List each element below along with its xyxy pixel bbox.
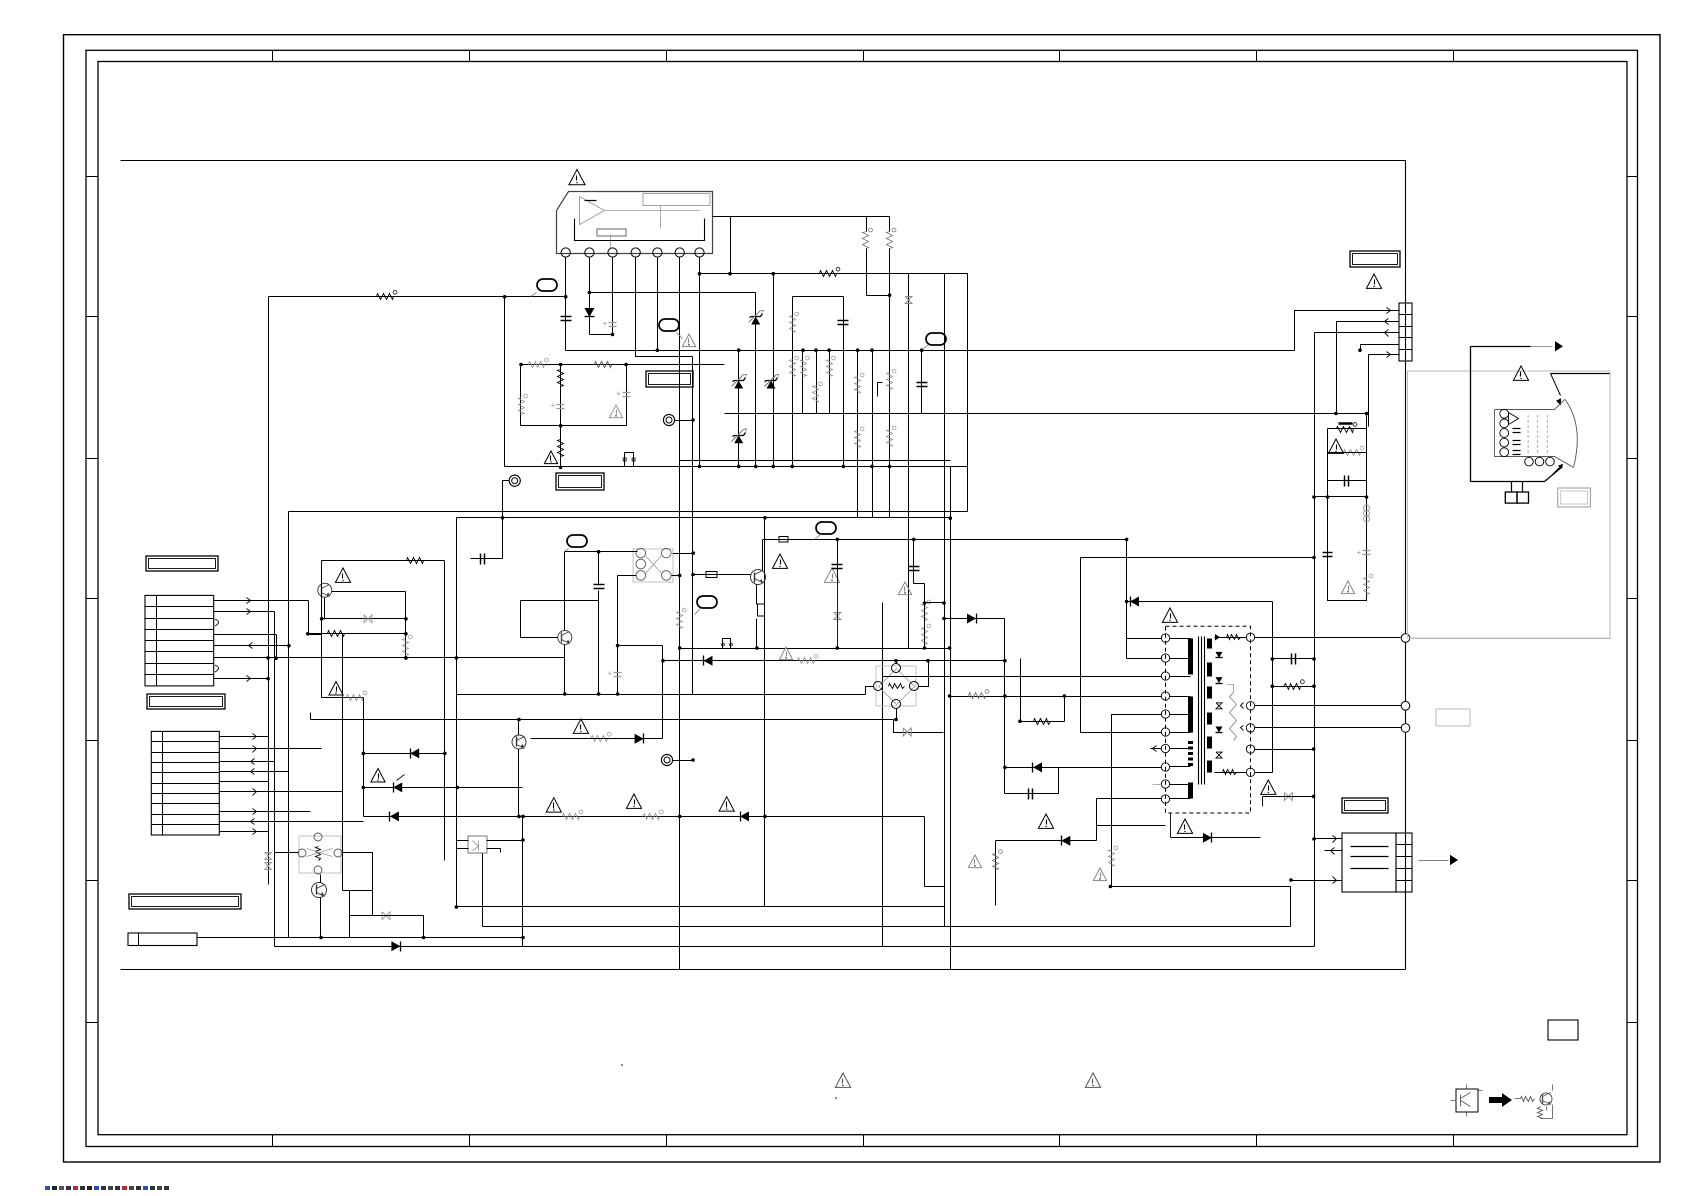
resistor R10 grey xyxy=(855,427,864,447)
connector CN1 xyxy=(145,595,214,686)
capacitor C16 grey xyxy=(608,669,622,678)
wire RC mid xyxy=(1326,495,1369,499)
resistor R6 grey xyxy=(801,356,810,376)
capacitor C7 xyxy=(917,383,928,387)
wire bus G y=539.4 xyxy=(763,539,1127,541)
warning tri R35 xyxy=(1093,868,1106,881)
wire Q3 base xyxy=(691,573,750,577)
capacitor C14 xyxy=(1029,789,1033,800)
wire trunk x=1291 xyxy=(1290,887,1292,927)
wire x=425 xyxy=(423,916,425,938)
wire trunk x=288 xyxy=(287,512,291,938)
wire bus H y=557.5 xyxy=(1081,556,1316,560)
wire U1 pin6 xyxy=(679,258,681,970)
wire K1 right xyxy=(672,574,682,578)
svg-text:+: + xyxy=(603,319,608,328)
svg-text:+: + xyxy=(1357,548,1362,557)
resistor R18 grey xyxy=(677,608,687,628)
open node N2 xyxy=(1401,702,1410,711)
label box LB8 xyxy=(1342,798,1388,813)
wire K2 left xyxy=(275,852,299,854)
wire Q1 emitter xyxy=(324,598,326,620)
warning grey P2 xyxy=(682,334,695,347)
zener Z1 xyxy=(749,311,764,325)
wire trunk x=444 xyxy=(444,561,446,861)
wire T1 xyxy=(503,481,510,559)
wire x=560 col xyxy=(560,365,562,468)
wire x=343 col xyxy=(342,634,344,891)
resistor R26 xyxy=(1273,680,1316,690)
resistor R2 grey xyxy=(863,228,873,248)
x-diode XD3 grey xyxy=(350,912,424,920)
wires CN2 fanout xyxy=(220,734,364,835)
resistor R33 grey xyxy=(969,690,989,699)
wire TR1 pin5 right xyxy=(1255,772,1273,774)
capacitor C10 xyxy=(909,538,920,584)
wire y=787.4 xyxy=(362,786,523,790)
resistor R25 grey xyxy=(1364,574,1373,594)
label box LB3 xyxy=(146,556,218,571)
diode D6 y=946 xyxy=(391,941,400,951)
wire col x=792 xyxy=(790,297,794,469)
wire U1 pin7 xyxy=(698,258,702,469)
warning tri bottom1 xyxy=(835,1073,850,1087)
capacitor C13 grey xyxy=(1357,548,1371,557)
warning tri grey a xyxy=(824,568,839,582)
resistor R4 on bus xyxy=(820,267,840,276)
wire TR1 pin3 right xyxy=(1255,727,1402,729)
wire RC left link xyxy=(1312,495,1327,499)
wire y=753.4 xyxy=(362,752,447,756)
wire bus F y=517.8 xyxy=(457,516,953,520)
wire y=618 diode xyxy=(942,617,1004,621)
wire x=663 link xyxy=(661,646,665,739)
wire TR1 pin5 left xyxy=(1112,715,1162,887)
wire R2 col xyxy=(866,217,868,296)
wire x=521 col xyxy=(520,365,522,426)
wire x=504 col xyxy=(504,297,506,467)
junction pin1 busA xyxy=(564,295,568,299)
wire x=1064 jog xyxy=(1064,697,1066,722)
resistor R28 xyxy=(595,362,612,368)
wire TR1 pin6 left xyxy=(1081,732,1162,734)
wire trunk x=693 xyxy=(692,357,694,695)
capacitor C5 grey xyxy=(616,389,630,398)
wire col x=829 xyxy=(827,348,831,413)
pulse symbol PS2 xyxy=(623,453,635,467)
wire x=311 stub xyxy=(310,713,312,720)
svg-text:+: + xyxy=(608,669,613,678)
wire R11 bracket xyxy=(878,383,883,397)
wire bus K y=694 xyxy=(457,694,866,696)
wire pin2 elbow xyxy=(590,333,615,337)
diode D3 xyxy=(704,656,713,666)
wire col x=888 lower xyxy=(888,296,892,518)
resistor R32 grey xyxy=(1328,446,1367,455)
capacitor C15 xyxy=(1273,654,1316,665)
resistor R7 grey xyxy=(813,382,823,402)
icon transistor circuit xyxy=(1515,1085,1553,1119)
wire x=995 xyxy=(995,841,997,906)
box BR corner xyxy=(1548,1020,1578,1040)
resistor R21 grey xyxy=(798,654,818,663)
wire opto right xyxy=(487,838,525,852)
wire col x=908 xyxy=(908,274,910,649)
warning tri TRb xyxy=(1177,819,1192,833)
resistor R29 grey xyxy=(519,394,528,414)
diode D9 xyxy=(410,748,419,758)
wire BR1 top xyxy=(894,659,898,664)
warning tri CN3 xyxy=(1366,274,1381,288)
wire TR1 pin9 stub xyxy=(1153,784,1162,786)
wire y=583.5 xyxy=(914,583,925,585)
wire y=825 xyxy=(1097,825,1166,827)
wire bus B y=350.2 xyxy=(566,350,1295,352)
warning tri M1 xyxy=(546,798,561,812)
capacitor C6 xyxy=(838,321,849,325)
diode D11 xyxy=(1033,762,1043,772)
warning tri M2 xyxy=(626,794,641,808)
resistor R38 grey xyxy=(403,635,413,655)
wire col x=739 xyxy=(737,348,741,468)
wire x=321 col xyxy=(320,561,324,698)
wire bus N y=886.5 xyxy=(1109,885,1291,889)
pill label P4 xyxy=(815,522,837,540)
CRT assembly xyxy=(1471,1,1685,504)
wire U1 pin4 xyxy=(636,258,693,357)
wire trunk x=268 xyxy=(268,297,270,885)
resistor R35 grey xyxy=(1109,846,1118,866)
terminal T1 xyxy=(509,475,520,486)
wire pin5 path xyxy=(1369,355,1399,427)
wire col x=843 xyxy=(842,297,846,469)
warning tri D12 xyxy=(1038,814,1053,828)
resistor R24 grey xyxy=(643,810,664,820)
capacitor C2 grey on pin3 xyxy=(603,319,617,328)
transistor Q2 xyxy=(558,631,572,645)
inductor L1 grey xyxy=(1364,505,1370,522)
wire U1 pin3 xyxy=(612,258,614,335)
wire x=363 col xyxy=(363,698,365,817)
wire x=1020 xyxy=(1020,659,1022,722)
pill label P1 xyxy=(531,279,558,297)
wire TR1 pin4 left xyxy=(948,694,1162,698)
wire col x=872 xyxy=(870,348,874,517)
wire pin1 path xyxy=(1295,311,1399,351)
warning tri RC2 xyxy=(1341,581,1354,594)
wire cap loop xyxy=(1005,768,1059,794)
warning tri R36 xyxy=(968,855,981,868)
pill label P3 xyxy=(923,333,947,350)
wire trunk x=617 xyxy=(616,576,620,696)
resistor R9 grey xyxy=(855,373,864,393)
wire bus E y=511.3 xyxy=(289,511,968,513)
x-diode XD4 grey xyxy=(364,615,372,623)
wire col x=773 xyxy=(772,274,776,469)
CRT grey frame xyxy=(1408,371,1611,638)
open node N3 xyxy=(1401,724,1410,733)
junction busD left xyxy=(559,466,563,470)
small box F1 xyxy=(779,537,788,543)
label box LB1 xyxy=(556,473,604,490)
wire TR1 pin10 left xyxy=(1097,799,1162,841)
arrow pin2 xyxy=(1385,319,1389,325)
pill label P2 xyxy=(659,319,683,339)
wire schematic top edge xyxy=(121,160,1406,162)
wire bus J y=660.7 xyxy=(662,659,1007,663)
capacitor C3 xyxy=(471,554,503,565)
wire trunk x=925 xyxy=(924,817,926,887)
warning tri RC xyxy=(1328,439,1343,453)
wire y=890 xyxy=(343,890,373,892)
x-diode XD1 grey xyxy=(834,583,841,650)
arrow pin1 xyxy=(1387,308,1391,314)
x-diode XD2 xyxy=(265,853,272,870)
junction pin2 xyxy=(588,291,592,295)
wire TR1 pin4 right xyxy=(1255,747,1316,751)
wire col x=967 xyxy=(967,274,969,512)
svg-text:+: + xyxy=(551,401,556,410)
resistor R27 grey xyxy=(529,358,549,367)
wire x=1005 xyxy=(1004,619,1006,794)
optocoupler U2 xyxy=(468,836,487,853)
hooks CN1 xyxy=(215,619,219,672)
big arrow icon xyxy=(1489,1093,1512,1107)
wire col x=803 xyxy=(801,348,805,413)
wire bus N2 y=887 xyxy=(925,886,945,888)
pulse symbol PS1 xyxy=(722,639,733,649)
wire bus R y=939 xyxy=(197,936,525,940)
wire y=603 xyxy=(923,601,946,605)
wire y=840.8 xyxy=(996,840,1097,842)
wire y=292 line xyxy=(590,292,756,294)
small box LB6 xyxy=(128,933,197,946)
capacitor C12 xyxy=(1323,553,1333,557)
wire col x=816 xyxy=(814,348,818,413)
wire pin3 path xyxy=(1315,332,1399,334)
wire pin2 path xyxy=(1337,322,1399,414)
zener Z6 grey xyxy=(903,728,911,736)
resistor R30 xyxy=(558,370,564,387)
wire TR1 pin1 left xyxy=(1125,538,1162,639)
pill label P5 xyxy=(695,596,718,615)
CRT label grey xyxy=(1558,488,1591,507)
diode D14 arrow xyxy=(1130,597,1139,607)
wire y=560.3 xyxy=(322,560,445,562)
wire opto left xyxy=(457,841,469,849)
title text strip xyxy=(45,1186,169,1190)
transistor Q5 xyxy=(312,883,327,898)
capacitor C1 on pin1 xyxy=(561,317,572,321)
wire TR1 pin7 stub xyxy=(1151,746,1162,752)
wire bus A y=296.8 xyxy=(269,295,567,299)
warning tri grey b xyxy=(898,582,911,595)
resistor R1 on bus A xyxy=(377,290,397,299)
wire U1 out right xyxy=(713,217,731,274)
wire bus P y=927 xyxy=(483,926,1291,928)
zener Z7 grey xyxy=(1263,792,1316,806)
wire TR1 pin3 left xyxy=(883,676,1162,678)
warning tri TR1 xyxy=(1162,608,1177,622)
wire K2 right xyxy=(343,853,373,916)
warning grey box xyxy=(609,405,622,418)
wire trunk x=765 xyxy=(763,516,767,907)
wire T2 xyxy=(673,758,695,762)
wire TR1 pin1 right xyxy=(1255,637,1401,639)
wire TR1 pin2 right xyxy=(1255,705,1402,707)
capacitor C9 xyxy=(832,538,843,583)
warning triangle above U1 xyxy=(569,170,585,185)
wire bus D y=466.4 xyxy=(505,466,968,468)
zener Z8 xyxy=(393,775,404,793)
capacitor C4 grey xyxy=(551,401,565,410)
resistor R3 grey xyxy=(887,228,896,248)
diode D4 xyxy=(635,734,644,744)
wire Q3 collector xyxy=(762,540,764,571)
wire RC top xyxy=(1328,428,1367,430)
wire y=425.7 xyxy=(521,424,627,428)
wire K1 leftlow xyxy=(618,575,637,577)
transformer TR1 xyxy=(1161,626,1254,813)
wire K1 left xyxy=(565,550,638,554)
wire BR1 left xyxy=(866,687,874,695)
wire y=739 xyxy=(531,738,663,740)
arrow pin3 xyxy=(1385,330,1389,337)
connector CN3 xyxy=(1399,303,1413,361)
zener Z3 xyxy=(732,429,747,444)
wire x=1272 xyxy=(1271,602,1275,773)
wire schematic bottom edge xyxy=(121,969,1406,971)
resistor R5 grey xyxy=(790,312,799,332)
resistor R22 grey xyxy=(591,732,612,741)
wire bus M y=816.4 xyxy=(364,815,925,819)
wire trunk x=483 low xyxy=(482,853,484,927)
thermistor RT1 xyxy=(1337,423,1357,433)
wires CN4 left xyxy=(1289,836,1342,884)
wire trunk x=274 xyxy=(274,612,276,947)
connector CN2 xyxy=(151,731,219,835)
small box R16 xyxy=(706,572,717,578)
wire bus D2 y=460.3 xyxy=(680,460,951,462)
wire x=626 col xyxy=(626,365,628,426)
zener Z4 xyxy=(765,375,779,389)
resistor R8 grey xyxy=(827,356,836,376)
wire x=405 col xyxy=(404,592,408,660)
wire R3 col xyxy=(867,217,892,298)
zener Z5 grey xyxy=(905,297,912,304)
diode D12 xyxy=(1061,836,1070,846)
resistor R12 grey xyxy=(887,426,896,446)
resistor R11 grey xyxy=(887,369,896,389)
warning tri bottom2 xyxy=(1085,1073,1100,1087)
wire TR1 pin8 left xyxy=(1003,766,1161,770)
wire U1 pin1 xyxy=(565,258,567,351)
wire y=216.5 xyxy=(731,216,890,218)
wire bus L y=719.5 xyxy=(311,719,894,721)
relay K1 xyxy=(633,548,673,582)
wires CN1 fanout xyxy=(214,598,565,682)
wire x=564 col xyxy=(563,552,567,696)
wire trunk x=456 xyxy=(456,518,458,907)
op-amp IC U1 xyxy=(557,192,713,258)
resistor R37 xyxy=(407,558,424,564)
resistor R20 grey xyxy=(922,624,931,644)
relay K2 xyxy=(298,833,342,874)
resistor R14 grey xyxy=(329,682,367,701)
wire x=924 col xyxy=(923,584,927,650)
wire schematic right edge xyxy=(1405,161,1407,970)
wire trunk x=1314 xyxy=(1314,333,1316,947)
svg-text:+: + xyxy=(616,389,621,398)
arrow pin5 xyxy=(1387,352,1391,358)
wire Q2 base xyxy=(521,601,599,638)
resistor R5b grey xyxy=(790,356,799,376)
wire col x=921 xyxy=(920,348,924,413)
wire Q1 collector xyxy=(332,591,406,593)
wire pin4 path xyxy=(1358,345,1398,353)
label box LB2 xyxy=(646,371,693,387)
diode D13 xyxy=(967,614,977,624)
wire trunk x=523 xyxy=(522,817,524,947)
warning tri Z8 xyxy=(371,769,385,783)
warning tri CRT xyxy=(1513,366,1528,380)
grey line N1 xyxy=(1410,638,1611,640)
icon optocoupler xyxy=(1451,1085,1483,1117)
wire y=296 link xyxy=(793,296,844,298)
wire y=732 zener xyxy=(894,720,944,733)
grey box right xyxy=(1436,709,1470,726)
small box R17 xyxy=(758,604,765,616)
connector CN4 xyxy=(1342,833,1413,892)
wire trunk x=883 xyxy=(882,603,884,947)
bridge rectifier BR1 xyxy=(874,664,919,709)
wire arrow y=601 xyxy=(1127,601,1273,603)
resistor R36 grey xyxy=(993,850,1003,871)
wire trunk x=950 xyxy=(950,467,952,970)
wire x=348 xyxy=(349,891,351,938)
tiny dots xyxy=(621,1064,837,1099)
resistor R19 grey xyxy=(922,600,931,620)
wire col x=756 xyxy=(754,293,758,469)
wire U1 pin2 xyxy=(589,258,591,335)
wire TR1 pin2 left xyxy=(1127,658,1162,660)
wire K1 topright xyxy=(673,551,696,555)
wire trunk x=1126 xyxy=(1125,540,1129,659)
terminal T2 xyxy=(661,754,672,765)
wire Q5 xyxy=(320,875,322,938)
wire BR1 bottom xyxy=(894,709,898,722)
wire y=364.5 xyxy=(519,363,724,367)
warning tri M3 xyxy=(719,797,734,811)
wire bus I y=648 xyxy=(678,646,951,650)
wire y=645.6 xyxy=(618,645,663,647)
wire RC rails upper xyxy=(1328,412,1369,497)
resistor R34 xyxy=(1034,719,1051,725)
arrow CN4 right xyxy=(1419,855,1459,865)
capacitor C11 xyxy=(1328,476,1367,487)
pill label P6 xyxy=(565,535,588,552)
diode D1 xyxy=(584,308,594,317)
wire bus C y=413.5 xyxy=(725,412,1367,416)
warning tri low1 xyxy=(573,719,588,733)
wire trunk x=944 xyxy=(944,274,946,927)
transistor Q4 xyxy=(512,735,526,749)
wire Q3 emitter xyxy=(755,585,759,650)
diode D10 on bus M xyxy=(390,811,399,821)
wire Q4 up xyxy=(517,718,521,735)
resistor R23 grey xyxy=(563,810,583,820)
wire x=1081 xyxy=(1080,558,1082,733)
